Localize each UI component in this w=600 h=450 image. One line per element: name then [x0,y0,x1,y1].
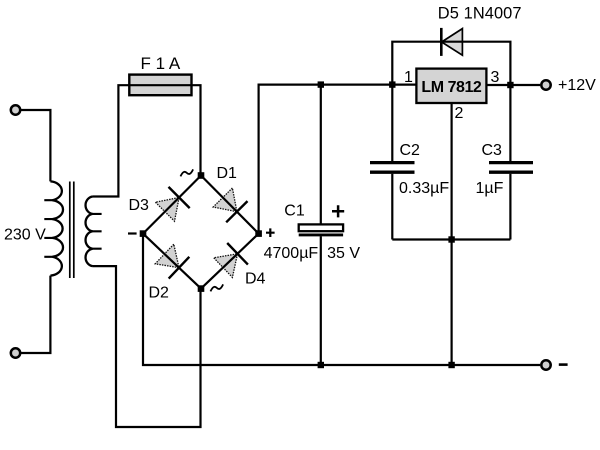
junction [448,236,454,242]
wire [320,85,322,225]
label ~ bottom [211,284,224,291]
svg-text:D4: D4 [245,271,266,288]
junction [507,82,513,88]
junction [389,81,395,87]
wire [192,85,201,175]
svg-text:+12V: +12V [558,77,596,94]
svg-text:3: 3 [491,69,500,86]
regulator U1 LM 7812 [416,69,486,103]
wire [509,85,511,161]
svg-text:C3: C3 [482,142,503,159]
label minus output [559,363,568,366]
svg-text:D1: D1 [217,165,238,182]
terminal J1 input top [11,105,20,114]
wire [21,110,51,181]
diode D3 [143,176,201,234]
junction [448,362,454,368]
svg-text:230 V: 230 V [4,227,46,244]
wire [391,174,393,240]
fuse F1 [129,75,191,96]
wire [391,85,393,161]
transformer core [70,182,74,279]
terminal J2 input bottom [11,348,20,357]
svg-text:C2: C2 [400,142,421,159]
svg-text:4700µF: 4700µF [264,245,319,262]
node - [140,230,147,237]
label ~ top [181,169,194,176]
wire [93,266,201,427]
wire [451,103,453,365]
terminal output minus [541,360,550,369]
wire [320,236,322,365]
svg-text:C1: C1 [284,202,305,219]
svg-text:0.33µF: 0.33µF [399,180,449,197]
wire [486,84,540,86]
diode D5 [392,28,510,85]
transformer T1 primary winding [50,181,63,275]
wire [509,174,511,240]
transformer T1 primary hooks [44,200,52,257]
junction [318,81,324,87]
label plus C1 [332,205,344,217]
svg-text:2: 2 [455,105,464,122]
diode D1 [201,176,259,234]
wire [392,238,510,240]
capacitor C2 [370,163,415,173]
svg-text:LM 7812: LM 7812 [421,79,482,96]
transformer T1 secondary winding [86,197,93,267]
junction [318,362,324,368]
wire [21,276,51,353]
label plus bridge [266,228,275,237]
svg-text:1µF: 1µF [476,180,504,197]
wire [143,234,540,365]
diode D2 [143,234,201,289]
svg-text:35 V: 35 V [327,245,360,262]
node ~ bottom [198,285,205,292]
label minus bridge [128,232,137,234]
node ~ top [198,172,205,179]
transformer T1 secondary hooks [92,214,101,249]
svg-text:F 1 A: F 1 A [141,54,181,73]
node + [255,230,262,237]
terminal output +12V [541,80,550,89]
capacitor C1 [299,224,343,235]
svg-text:1: 1 [404,69,413,86]
svg-text:D5 1N4007: D5 1N4007 [438,4,522,22]
capacitor C3 [489,163,533,173]
wire [259,85,417,234]
wire [93,85,130,196]
diode D4 [201,234,259,289]
svg-text:D3: D3 [129,197,150,214]
svg-text:D2: D2 [149,285,170,302]
